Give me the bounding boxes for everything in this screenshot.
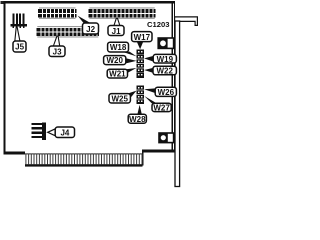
tail W18 bbox=[122, 52, 137, 57]
tail W20 bbox=[126, 58, 137, 63]
label boxes bbox=[13, 23, 176, 138]
label J5 bbox=[13, 41, 26, 52]
label W27 bbox=[152, 103, 171, 112]
connector J3 body bbox=[37, 28, 100, 36]
J5 connector component bbox=[11, 14, 27, 28]
label W17 bbox=[132, 32, 152, 42]
connector J2 pin stubs bbox=[39, 7, 76, 19]
tail W27 bbox=[144, 96, 157, 103]
svg-text:W17: W17 bbox=[134, 33, 151, 42]
svg-text:W20: W20 bbox=[106, 56, 123, 65]
bracket ear (top tab) bbox=[175, 17, 198, 26]
connector J2 body bbox=[38, 9, 76, 17]
jumper block W17-W22 bbox=[136, 49, 144, 78]
tail W19 bbox=[144, 56, 153, 62]
board edge-connector step bbox=[142, 150, 144, 166]
svg-text:J2: J2 bbox=[86, 25, 95, 34]
tail J2 bbox=[78, 16, 92, 24]
callout tails group bbox=[15, 16, 157, 136]
J4 connector component bbox=[32, 122, 47, 140]
label W18 bbox=[108, 42, 129, 52]
label W21 bbox=[107, 69, 127, 78]
mounting tab w/ hole (bottom) bbox=[159, 133, 174, 143]
board left edge bbox=[4, 1, 6, 154]
label W20 bbox=[104, 56, 126, 66]
svg-text:J1: J1 bbox=[112, 27, 121, 36]
edge connector fingers bbox=[25, 153, 143, 166]
svg-text:W28: W28 bbox=[129, 115, 146, 124]
connector grid lines group (white separators) bbox=[40, 9, 153, 36]
label W25 bbox=[109, 94, 130, 104]
svg-text:J3: J3 bbox=[53, 47, 62, 56]
label W22 bbox=[153, 66, 176, 75]
svg-text:C1203: C1203 bbox=[147, 20, 170, 29]
board bottom-left edge bbox=[4, 151, 26, 154]
board right edge (double line) bbox=[172, 1, 173, 151]
label J4 bbox=[55, 127, 74, 138]
tail W25 bbox=[126, 91, 137, 99]
label J3 bbox=[49, 46, 65, 57]
svg-text:W21: W21 bbox=[109, 70, 126, 79]
svg-text:W19: W19 bbox=[157, 55, 174, 64]
board bottom-right edge bbox=[142, 150, 175, 153]
label W26 bbox=[155, 87, 176, 97]
svg-text:J4: J4 bbox=[60, 128, 69, 137]
label W19 bbox=[153, 54, 176, 63]
tail W22 bbox=[144, 68, 153, 73]
tail J1 bbox=[114, 18, 120, 26]
label J1 bbox=[108, 26, 124, 36]
label J2 bbox=[83, 23, 99, 34]
svg-text:W26: W26 bbox=[158, 88, 175, 97]
edge connector finger lines bbox=[25, 154, 142, 165]
tail W21 bbox=[125, 68, 136, 73]
mounting tab w/ hole (top) bbox=[158, 38, 173, 48]
tail W28 bbox=[137, 105, 141, 114]
svg-text:W27: W27 bbox=[153, 103, 170, 112]
tail W17 bbox=[137, 41, 144, 49]
connector J3 pin stubs bbox=[37, 26, 98, 38]
svg-text:J5: J5 bbox=[15, 43, 24, 52]
connector J1 body bbox=[89, 9, 156, 17]
label W28 bbox=[128, 114, 146, 124]
tail J3 bbox=[53, 36, 60, 46]
svg-text:W22: W22 bbox=[156, 67, 173, 76]
connector J1 pin stubs bbox=[89, 7, 154, 19]
tail J5 bbox=[15, 27, 20, 41]
tail W26 bbox=[144, 88, 155, 93]
board top edge bbox=[4, 1, 175, 3]
svg-text:W18: W18 bbox=[110, 43, 127, 52]
jumper block W25-W28 bbox=[136, 85, 144, 104]
svg-text:W25: W25 bbox=[111, 94, 128, 103]
bracket strip bbox=[175, 21, 180, 187]
tail J4 bbox=[48, 129, 56, 136]
